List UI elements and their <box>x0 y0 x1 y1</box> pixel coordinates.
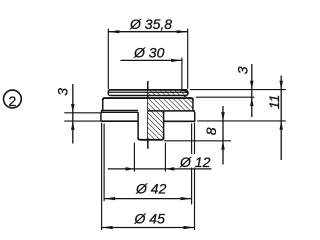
svg-text:11: 11 <box>266 95 282 110</box>
step rim right ear <box>182 90 188 96</box>
body top face (diam 42) <box>103 98 193 100</box>
svg-text:Ø 35,8: Ø 35,8 <box>129 16 172 32</box>
body bottom line left half <box>101 110 138 112</box>
body left side <box>102 100 104 111</box>
dim diam 30 <box>121 44 182 91</box>
top step inner line <box>109 91 187 93</box>
dim 3 left <box>54 84 100 144</box>
centerline <box>147 81 149 149</box>
hub right wall <box>163 111 165 139</box>
svg-text:Ø 42: Ø 42 <box>135 181 167 197</box>
top step thick top face <box>109 89 188 91</box>
dim diam 45 <box>102 123 195 230</box>
body-to-flange chamfer left <box>101 110 103 112</box>
body right side <box>192 100 194 111</box>
dim diam 35,8 <box>108 16 187 89</box>
body-to-flange chamfer right <box>193 110 195 112</box>
svg-text:Ø 45: Ø 45 <box>134 211 166 227</box>
dim diam 12 text with mask <box>178 154 213 170</box>
hatch section: body <box>148 99 193 111</box>
dim diam 42 <box>104 124 192 205</box>
svg-text:Ø 12: Ø 12 <box>179 154 211 170</box>
dim 11 right <box>197 76 285 161</box>
svg-text:8: 8 <box>203 127 219 135</box>
hub bottom with rounded corners <box>138 138 164 140</box>
flange bottom left segment <box>101 120 139 122</box>
top step outline (diam 35.8) <box>108 90 187 96</box>
svg-text:3: 3 <box>234 66 250 74</box>
dim 3 right <box>190 64 286 117</box>
flange bottom right segment <box>164 120 196 122</box>
item balloon circle 2 <box>4 90 22 109</box>
flange left side (diam 45) <box>100 112 102 121</box>
svg-text:2: 2 <box>9 93 17 109</box>
hub left wall <box>137 112 139 138</box>
hatch section: hub leg <box>148 111 164 139</box>
body bottom line right half <box>148 110 195 112</box>
flange top face line left half <box>101 111 138 113</box>
dim 8 <box>164 106 231 165</box>
flange right side (diam 45) <box>194 112 196 121</box>
svg-text:Ø 30: Ø 30 <box>133 44 165 60</box>
dim diam 12 <box>108 143 212 172</box>
svg-text:3: 3 <box>54 88 70 96</box>
hatch section right of centerline: step <box>148 90 187 95</box>
